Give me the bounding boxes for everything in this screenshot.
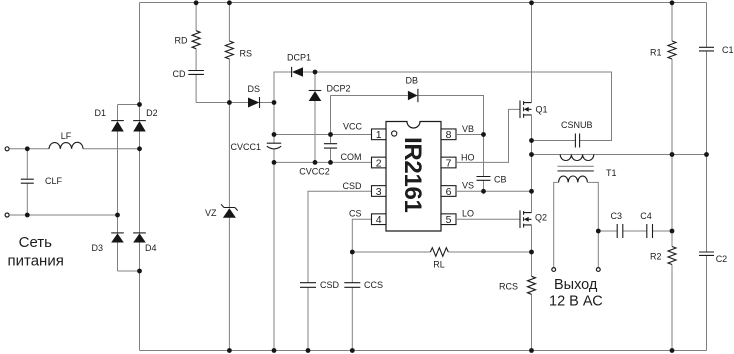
svg-text:COM: COM — [341, 152, 362, 162]
svg-text:Q2: Q2 — [535, 213, 547, 223]
wire Q1 drain — [531, 3, 533, 103]
svg-text:CB: CB — [494, 175, 507, 185]
svg-text:DCP1: DCP1 — [287, 53, 311, 63]
transformer T1 primary — [560, 155, 594, 161]
svg-text:VCC: VCC — [343, 122, 363, 132]
capacitor CSNUB — [575, 134, 579, 148]
wire LO line — [456, 218, 520, 220]
resistor RL — [430, 248, 448, 257]
node dots input — [25, 146, 30, 151]
resistor RCS — [528, 276, 536, 294]
transformer T1 core — [558, 165, 594, 167]
terminal input bottom — [5, 213, 9, 217]
wire VZ column — [228, 103, 230, 351]
pin 4 box — [372, 214, 387, 225]
wire C1/C2 column — [706, 3, 708, 351]
IC U1 body — [386, 122, 441, 232]
node dots RL line — [350, 250, 355, 255]
pin 1 box — [372, 129, 387, 140]
pin 7 box — [441, 157, 456, 168]
wire CSD pin3 branch — [308, 191, 372, 350]
diode DCP2 — [309, 91, 322, 101]
svg-text:D1: D1 — [94, 108, 106, 118]
capacitor CD — [188, 71, 204, 75]
svg-text:12 В АС: 12 В АС — [549, 294, 603, 310]
svg-text:CD: CD — [173, 69, 186, 79]
svg-text:VB: VB — [462, 124, 474, 134]
svg-text:RL: RL — [433, 260, 445, 270]
node dots COM line — [272, 160, 277, 165]
node dots VCC line — [272, 132, 277, 137]
capacitor CCS — [344, 283, 360, 288]
svg-text:7: 7 — [446, 157, 452, 169]
diode DS — [248, 98, 259, 108]
diode D3 — [111, 232, 124, 234]
wire primary line — [532, 154, 707, 156]
svg-text:C2: C2 — [716, 254, 728, 264]
wire CVCC2 column and DB line — [331, 96, 484, 163]
wire bridge top link — [118, 104, 140, 106]
wire RL line — [352, 251, 531, 253]
svg-text:C1: C1 — [722, 45, 734, 55]
inductor LF — [49, 142, 83, 149]
svg-text:CVCC2: CVCC2 — [299, 167, 330, 177]
svg-text:LF: LF — [61, 131, 72, 141]
svg-text:CSD: CSD — [342, 181, 362, 191]
svg-text:CLF: CLF — [45, 176, 63, 186]
transistor Q1 — [519, 100, 521, 118]
node dot VB — [481, 132, 486, 137]
resistor R1 — [668, 41, 676, 59]
wire bottom rail — [140, 350, 707, 352]
wire secondary left lead — [554, 182, 559, 267]
resistor RD — [192, 31, 200, 49]
svg-text:VZ: VZ — [205, 208, 217, 218]
svg-text:CS: CS — [349, 209, 362, 219]
wire R1/R2 column — [671, 3, 673, 351]
node dots VS line — [481, 189, 486, 194]
terminal output left — [552, 268, 556, 272]
svg-text:VS: VS — [462, 181, 474, 191]
wire CSNUB line — [532, 140, 576, 142]
svg-text:5: 5 — [446, 214, 452, 226]
svg-text:R2: R2 — [650, 252, 662, 262]
node dot DCP1 line — [313, 70, 318, 75]
wire CS pin4 branch — [352, 219, 371, 350]
capacitor C4 — [647, 224, 653, 238]
wire CB column — [483, 135, 485, 192]
wire secondary right lead — [588, 182, 599, 267]
capacitor C2 — [699, 252, 714, 255]
wire COM line — [274, 161, 372, 163]
diode DB — [408, 91, 418, 101]
capacitor CVCC2 — [324, 144, 337, 148]
wire DCP1 to CSNUB riser — [303, 72, 612, 141]
wire VS line — [456, 190, 532, 192]
svg-text:IR2161: IR2161 — [399, 137, 426, 213]
terminal output right — [596, 268, 600, 272]
wire DCP2 column — [314, 72, 316, 162]
svg-text:2: 2 — [376, 157, 382, 169]
svg-text:RS: RS — [240, 49, 253, 59]
wire AC input top — [10, 148, 140, 150]
svg-text:R1: R1 — [650, 48, 662, 58]
svg-text:D4: D4 — [145, 243, 157, 253]
wire VCC line — [274, 134, 372, 136]
node dots bottom rail — [227, 348, 232, 353]
capacitor CVCC1 (polarized) — [267, 143, 281, 149]
wire VB line — [456, 134, 484, 136]
svg-text:питания: питания — [8, 253, 64, 270]
svg-text:LO: LO — [462, 209, 474, 219]
svg-text:3: 3 — [376, 186, 382, 198]
svg-text:Q1: Q1 — [536, 105, 548, 115]
node dots C3 line — [596, 229, 601, 234]
svg-text:DB: DB — [406, 76, 419, 86]
wire AC input bottom — [10, 214, 118, 216]
svg-text:C4: C4 — [640, 211, 652, 221]
node dots top rail — [194, 0, 199, 5]
svg-text:DCP2: DCP2 — [327, 84, 351, 94]
transistor Q2 — [519, 210, 521, 228]
svg-text:HO: HO — [461, 153, 475, 163]
capacitor CB — [477, 177, 491, 181]
wire charge-pump column x274 — [274, 72, 291, 351]
svg-text:T1: T1 — [606, 168, 617, 178]
svg-text:CSNUB: CSNUB — [561, 120, 593, 130]
svg-text:RD: RD — [175, 36, 188, 46]
svg-text:D3: D3 — [91, 243, 103, 253]
capacitor CSD — [300, 283, 316, 288]
svg-text:1: 1 — [376, 129, 382, 141]
wire half-bridge node — [531, 115, 533, 213]
svg-text:D2: D2 — [146, 108, 158, 118]
capacitor CLF — [21, 179, 34, 183]
pin 8 box — [441, 129, 456, 140]
resistor R2 — [668, 247, 676, 265]
svg-text:6: 6 — [446, 186, 452, 198]
svg-text:4: 4 — [376, 214, 382, 226]
resistor RS — [225, 41, 233, 59]
svg-text:Выход: Выход — [554, 277, 598, 293]
transformer T1 secondary — [559, 176, 588, 182]
diode D4 — [133, 232, 146, 234]
wire bridge right column (D2/D4 chain) — [139, 3, 141, 351]
capacitor C1 — [699, 47, 714, 51]
diode DCP1 — [292, 67, 303, 77]
zener VZ — [223, 208, 236, 218]
node dots DS line — [227, 100, 232, 105]
diode D1 — [111, 120, 124, 122]
wire Q2 source / RCS column — [531, 225, 533, 351]
terminal input top — [5, 147, 9, 151]
svg-text:DS: DS — [248, 84, 261, 94]
pin 3 box — [372, 186, 387, 197]
wire RS column — [228, 3, 230, 103]
IC pin1 mark — [392, 131, 397, 136]
svg-text:CSD: CSD — [320, 280, 340, 290]
wire bridge bottom link — [118, 270, 140, 272]
wire HO line — [456, 109, 520, 162]
diode D2 — [133, 120, 146, 122]
capacitor C3 — [617, 224, 623, 238]
wire CLF column — [26, 149, 28, 215]
svg-text:8: 8 — [446, 129, 452, 141]
svg-text:CVCC1: CVCC1 — [230, 142, 261, 152]
svg-text:C3: C3 — [611, 211, 623, 221]
pin 5 box — [441, 214, 456, 225]
wire C3/C4 line — [598, 230, 672, 232]
pin 6 box — [441, 186, 456, 197]
wire DS line — [196, 102, 274, 104]
svg-text:RCS: RCS — [499, 282, 518, 292]
pin 2 box — [372, 157, 387, 168]
svg-text:Сеть: Сеть — [19, 234, 53, 251]
wire bridge left column (D1/D3 chain) — [117, 105, 119, 272]
wire top rail — [140, 2, 707, 4]
node dots half-bridge out — [529, 138, 534, 143]
svg-text:CCS: CCS — [364, 280, 383, 290]
wire RD/CD column — [195, 3, 197, 103]
